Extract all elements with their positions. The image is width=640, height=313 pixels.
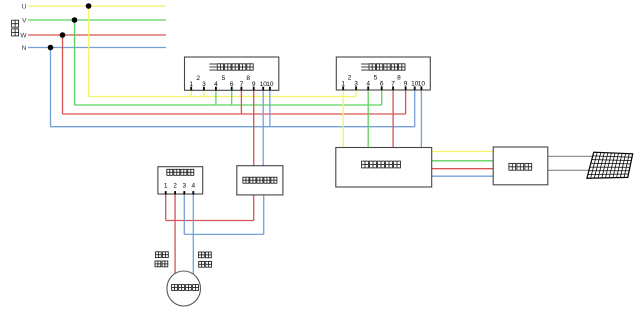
svg-text:U: U (22, 3, 27, 10)
svg-text:9: 9 (404, 81, 408, 88)
svg-text:8: 8 (397, 75, 401, 82)
svg-text:2: 2 (173, 183, 177, 190)
svg-text:10: 10 (418, 81, 426, 88)
svg-text:3: 3 (182, 183, 186, 190)
svg-text:9: 9 (252, 81, 256, 88)
svg-text:5: 5 (222, 75, 226, 82)
svg-text:W: W (20, 32, 27, 39)
svg-text:1: 1 (164, 183, 168, 190)
svg-text:7: 7 (240, 81, 244, 88)
svg-text:2: 2 (196, 75, 200, 82)
svg-text:3: 3 (354, 81, 358, 88)
svg-text:10: 10 (266, 81, 274, 88)
svg-text:3: 3 (202, 81, 206, 88)
svg-text:4: 4 (366, 81, 370, 88)
svg-text:1: 1 (189, 81, 193, 88)
svg-text:5: 5 (374, 75, 378, 82)
svg-text:7: 7 (391, 81, 395, 88)
svg-text:V: V (22, 17, 27, 24)
svg-text:1: 1 (341, 81, 345, 88)
svg-text:2: 2 (348, 75, 352, 82)
svg-text:6: 6 (380, 81, 384, 88)
svg-text:N: N (22, 45, 27, 52)
svg-text:6: 6 (230, 81, 234, 88)
svg-text:8: 8 (246, 75, 250, 82)
svg-text:4: 4 (191, 183, 195, 190)
svg-text:4: 4 (214, 81, 218, 88)
